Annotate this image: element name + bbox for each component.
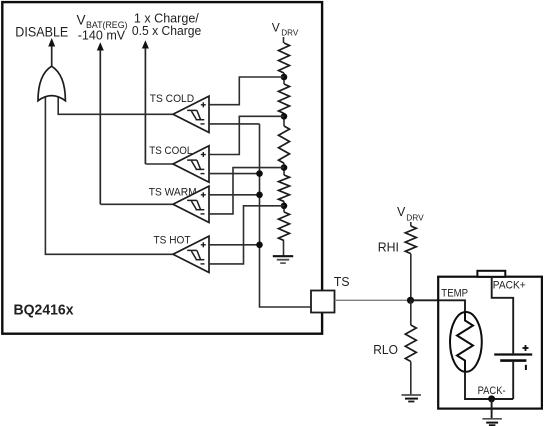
node tap1 bbox=[281, 74, 288, 81]
wire TS COOL output to Charge arrow bbox=[145, 163, 173, 165]
svg-text:TEMP: TEMP bbox=[441, 287, 468, 299]
svg-text:V: V bbox=[272, 21, 280, 35]
wire tap2 to TS COOL + bbox=[209, 116, 284, 154]
wire TS bus vertical bbox=[260, 124, 312, 307]
label VBAT(REG) -140 mV bbox=[77, 13, 128, 43]
wire VDRV to RHI bbox=[410, 222, 412, 226]
thermistor RT bbox=[450, 312, 482, 372]
label VDRV (right) bbox=[397, 205, 424, 223]
wire R5 to ground bbox=[283, 241, 285, 257]
node PACK- junction bbox=[488, 395, 495, 402]
wire TEMP node into battery pack bbox=[411, 300, 466, 312]
wire tap3 to TS WARM - bbox=[209, 168, 284, 214]
wire tap1 to TS COLD + bbox=[209, 77, 284, 105]
wire TS COLD - to TS bus bbox=[209, 123, 260, 125]
wire TS WARM output to VBAT arrow bbox=[100, 203, 173, 205]
comparator U4 TS HOT bbox=[173, 236, 209, 272]
ground (ladder) bbox=[273, 256, 293, 263]
svg-text:0.5 x Charge: 0.5 x Charge bbox=[132, 24, 201, 38]
node TEMP junction bbox=[407, 297, 414, 304]
signal arrow 1x/0.5x Charge bbox=[142, 40, 149, 164]
wire tap4 to TS HOT - bbox=[209, 206, 284, 264]
pin TS square bbox=[311, 291, 335, 313]
wire RHI to TEMP node bbox=[410, 254, 412, 301]
comparator U3 TS WARM bbox=[173, 186, 209, 222]
wire R1 to R2 bbox=[283, 73, 285, 84]
wire TEMP node to RLO bbox=[410, 300, 412, 325]
wire TS HOT + to bus bbox=[209, 244, 260, 246]
node TS COOL - junction bbox=[256, 170, 263, 177]
svg-text:TS COLD: TS COLD bbox=[150, 93, 195, 105]
label VDRV (ladder) bbox=[272, 21, 299, 38]
wire TS COOL - to bus bbox=[209, 173, 260, 175]
resistor R1 (ladder top) bbox=[279, 43, 290, 73]
resistor R5 (ladder bottom) bbox=[279, 212, 290, 241]
svg-text:TS COOL: TS COOL bbox=[149, 145, 192, 157]
svg-text:DISABLE: DISABLE bbox=[15, 25, 68, 40]
resistor R4 bbox=[279, 175, 290, 201]
wire PACK- to ground bbox=[491, 399, 493, 419]
IC box BQ2416x bbox=[2, 2, 322, 334]
wire TS pin to TEMP node bbox=[335, 299, 411, 301]
wire R4 to R5 bbox=[283, 201, 285, 212]
resistor R2 bbox=[279, 84, 290, 113]
svg-text:PACK-: PACK- bbox=[478, 385, 506, 397]
svg-text:BQ2416x: BQ2416x bbox=[14, 302, 75, 319]
battery pack box bbox=[438, 277, 542, 409]
signal arrow DISABLE bbox=[48, 38, 55, 67]
node tap4 bbox=[281, 203, 288, 210]
resistor RLO bbox=[405, 325, 416, 362]
OR gate U5 bbox=[38, 66, 65, 101]
wire TS WARM + to bus bbox=[209, 194, 260, 196]
signal arrow VBAT(REG)-140mV bbox=[97, 42, 104, 204]
svg-text:V: V bbox=[77, 13, 86, 28]
terminal PACK+ bbox=[477, 271, 505, 277]
node tap3 bbox=[281, 164, 288, 171]
svg-text:DRV: DRV bbox=[281, 28, 298, 38]
wire RLO to ground bbox=[410, 362, 412, 395]
svg-text:V: V bbox=[397, 205, 406, 219]
wire TS COLD output to OR gate bbox=[58, 98, 173, 115]
svg-text:TS HOT: TS HOT bbox=[154, 235, 191, 247]
node TS HOT + junction bbox=[256, 242, 263, 249]
resistor R3 bbox=[279, 126, 290, 163]
svg-text:RLO: RLO bbox=[373, 343, 398, 357]
label 1 x Charge / 0.5 x Charge bbox=[132, 11, 201, 38]
node tap2 bbox=[281, 113, 288, 120]
wire R3 to R4 bbox=[283, 163, 285, 175]
svg-text:RHI: RHI bbox=[378, 239, 399, 254]
battery BT1 bbox=[494, 345, 532, 370]
comparator U1 TS COLD bbox=[173, 96, 209, 132]
wire PACK+ to battery bbox=[492, 277, 514, 354]
wire battery to PACK- rail bbox=[512, 362, 514, 399]
svg-text:TS: TS bbox=[334, 275, 350, 289]
svg-text:-140 mV: -140 mV bbox=[78, 27, 126, 42]
svg-text:DRV: DRV bbox=[406, 213, 424, 223]
resistor RHI bbox=[405, 226, 416, 254]
wire TS HOT output to OR gate bbox=[45, 98, 173, 255]
svg-text:PACK+: PACK+ bbox=[493, 280, 526, 292]
wire VDRV stub bbox=[283, 37, 285, 43]
node TS WARM + junction bbox=[256, 192, 263, 199]
comparator U2 TS COOL bbox=[173, 146, 209, 182]
ground (RLO) bbox=[402, 395, 421, 402]
ground (PACK-) bbox=[482, 419, 502, 426]
wire thermistor to PACK- rail bbox=[465, 372, 513, 399]
wire R2 to R3 bbox=[283, 113, 285, 126]
